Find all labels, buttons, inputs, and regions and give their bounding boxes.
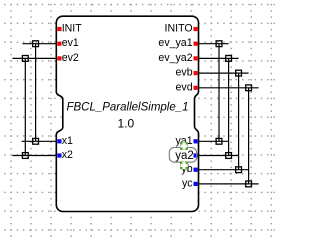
svg-text:yc: yc — [182, 177, 193, 189]
svg-text:x1: x1 — [62, 135, 73, 147]
junction square ya1 — [216, 138, 222, 144]
pin ev_ya2 (red) — [194, 56, 198, 60]
wire evb horizontal — [199, 72, 249, 74]
pin evb (red) — [194, 71, 198, 75]
pin ya1 (blue) — [194, 139, 198, 143]
svg-text:ev1: ev1 — [62, 37, 79, 49]
pin INITO (red) — [194, 27, 198, 31]
svg-text:ev2: ev2 — [62, 52, 79, 64]
wire evd->yc vertical — [248, 88, 250, 184]
wire ev2 horizontal — [13, 57, 57, 59]
svg-text:INIT: INIT — [62, 23, 83, 35]
green add badge below ya2 — [180, 161, 188, 169]
wire x1 horizontal — [22, 140, 57, 142]
wire ev1 horizontal — [23, 43, 57, 45]
junction square ev2 — [22, 56, 28, 62]
junction square ya2 — [226, 153, 232, 159]
svg-text:FBCL_ParallelSimple_1: FBCL_ParallelSimple_1 — [66, 101, 188, 113]
wire ya1 horizontal — [199, 140, 229, 142]
pin ev2 (red) — [57, 56, 61, 60]
wire ev_ya2->ya2 vertical — [228, 58, 230, 155]
pin ya2 (blue) — [194, 153, 198, 157]
pin ev_ya1 (red) — [194, 42, 198, 46]
wire ya2 horizontal — [199, 155, 239, 157]
pin x1 (blue) — [57, 139, 61, 143]
selection rounded rect around ya2 — [169, 148, 196, 163]
pin INIT (red) — [57, 27, 61, 31]
pin ev1 (red) — [57, 42, 61, 46]
svg-text:ya2: ya2 — [175, 150, 194, 162]
svg-text:1.0: 1.0 — [118, 117, 135, 131]
pin yb (blue) — [194, 168, 198, 172]
junction square yb — [236, 167, 242, 173]
svg-text:evd: evd — [176, 81, 193, 93]
wire ev1->x1 vertical — [35, 44, 37, 142]
green add badge above ya2 — [180, 142, 188, 150]
pin evd (red) — [194, 86, 198, 90]
svg-text:x2: x2 — [62, 149, 73, 161]
wire x2 horizontal — [12, 155, 56, 157]
junction square x1 — [33, 138, 39, 144]
wire ev_ya2 horizontal — [199, 57, 239, 59]
function block FBCL_ParallelSimple_1 outline — [56, 16, 198, 211]
wire yb horizontal — [199, 169, 249, 171]
pin yc (blue) — [194, 182, 198, 186]
junction square ev_ya2 — [226, 56, 232, 62]
junction square ev_ya1 — [216, 41, 222, 47]
svg-text:ev_ya2: ev_ya2 — [158, 52, 192, 64]
junction square yc — [246, 181, 252, 187]
wire yc horizontal — [199, 183, 259, 185]
svg-text:ev_ya1: ev_ya1 — [158, 37, 192, 49]
svg-text:evb: evb — [176, 67, 193, 79]
wire evd horizontal — [199, 87, 259, 89]
pin x2 (blue) — [57, 153, 61, 157]
junction square x2 — [22, 153, 28, 159]
wire ev2->x2 vertical — [24, 58, 26, 155]
wire ev_ya1->ya1 vertical — [218, 44, 220, 142]
junction square evd — [246, 85, 252, 91]
wire evb->yb vertical — [238, 73, 240, 170]
junction square ev1 — [33, 41, 39, 47]
wire ev_ya1 horizontal — [199, 43, 229, 45]
svg-text:INITO: INITO — [165, 23, 193, 35]
junction square evb — [236, 70, 242, 76]
